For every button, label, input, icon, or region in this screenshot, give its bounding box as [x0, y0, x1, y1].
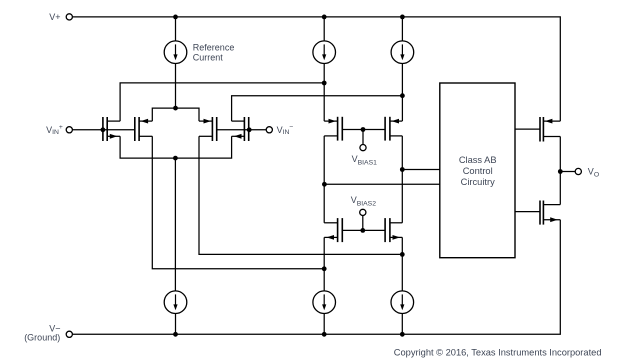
- svg-text:VBIAS2: VBIAS2: [351, 195, 377, 208]
- svg-text:Reference: Reference: [193, 43, 235, 53]
- svg-text:Class AB: Class AB: [459, 155, 497, 165]
- svg-text:Copyright © 2016, Texas Instru: Copyright © 2016, Texas Instruments Inco…: [394, 347, 602, 357]
- svg-text:VIN−: VIN−: [277, 124, 294, 136]
- svg-text:VIN+: VIN+: [46, 124, 63, 136]
- svg-text:VO: VO: [588, 167, 599, 179]
- svg-text:Current: Current: [193, 52, 224, 62]
- svg-text:Circuitry: Circuitry: [461, 177, 495, 187]
- svg-text:Control: Control: [463, 166, 493, 176]
- svg-text:VBIAS1: VBIAS1: [352, 154, 378, 167]
- svg-text:V+: V+: [49, 12, 60, 22]
- svg-text:(Ground): (Ground): [24, 333, 60, 343]
